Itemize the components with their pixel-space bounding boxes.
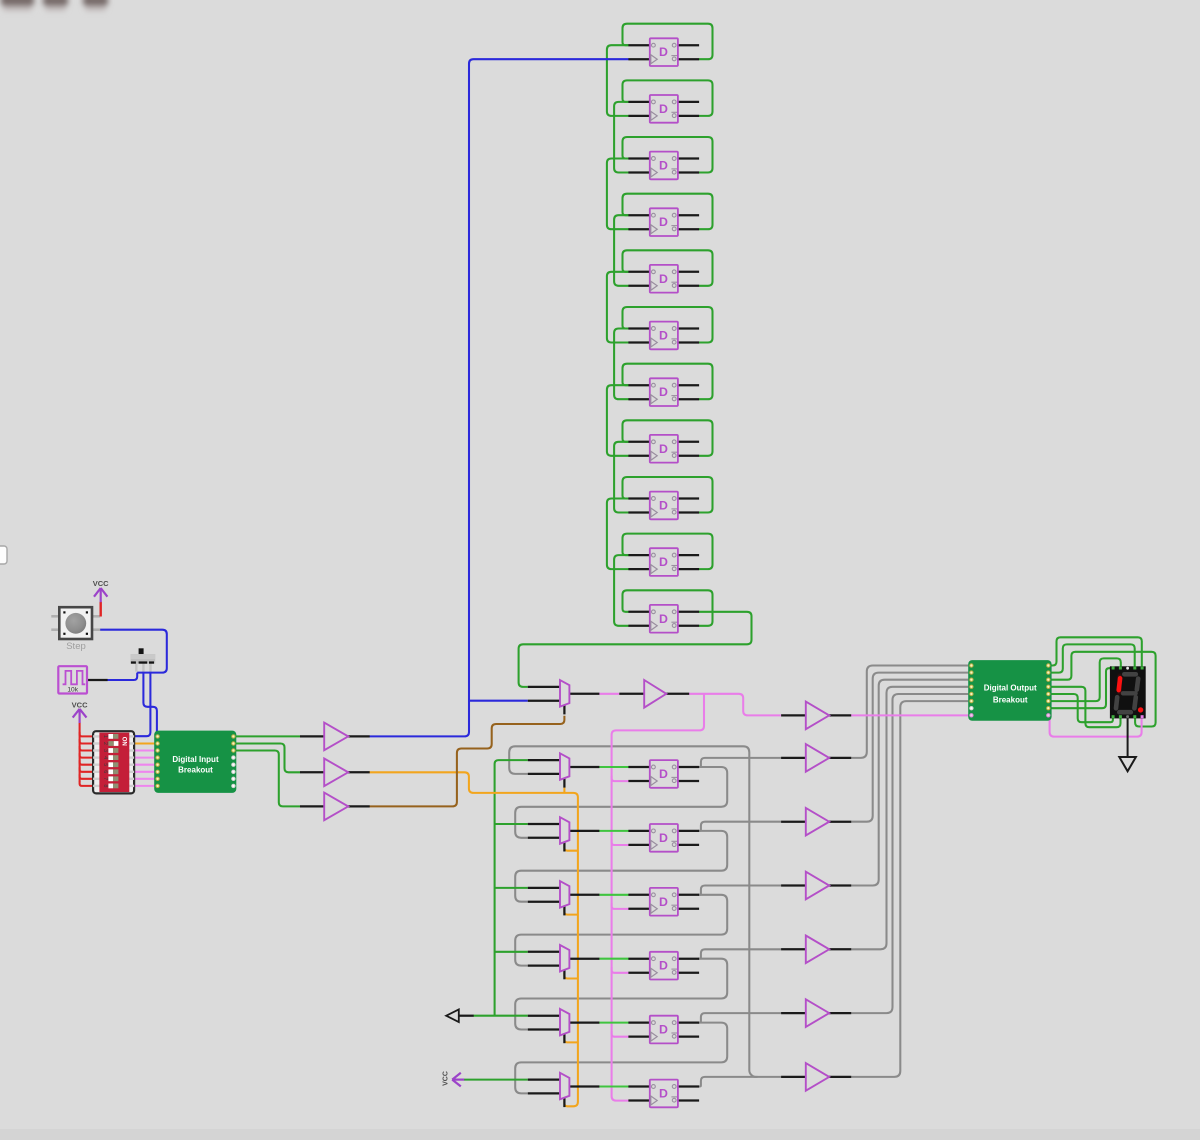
D flip-flop U8 (shift column) [628,435,699,463]
wire buffer 2 output to Digital Output Breakout pin 1 [851,666,968,758]
wire DFF8 D node to DFF9 clock [614,442,628,513]
DIP switch SW1 [93,731,134,793]
wire shift-enable tap mux row3 select [564,909,578,915]
D flip-flop register row3 [628,888,699,916]
mux0 output stub [569,693,599,695]
mux4 input B stub [528,964,560,966]
wire mux row5 output to DFF row5 D input [599,1022,628,1024]
wire VCC rail branch to DIP row4 [80,753,94,758]
Digital Input Breakout [154,731,236,793]
buffer C output stub [348,805,370,807]
svg-text:D: D [659,1087,668,1101]
wire green bus tap to mux row4 input A [495,951,528,953]
output buffer 6 [806,999,829,1027]
svg-text:D: D [659,215,668,229]
wire DIP row2 to Digital Input Breakout pin2 [134,742,158,744]
buffer0 after mux0 [644,680,666,708]
wire buffer 4 output to Digital Output Breakout pin 3 [851,680,968,886]
svg-text:D: D [659,1023,668,1037]
svg-text:D: D [659,385,668,399]
wire Digital Input Breakout pin2 to buffer B [233,744,300,773]
input node arrow [446,1009,459,1022]
wire buffer C output to mux0 select [370,716,565,807]
wire clock line tap to mux0 input B [469,700,528,702]
svg-text:D: D [659,499,668,513]
wire buffer 6 output to Digital Output Breakout pin 5 [851,694,968,1013]
wire buffer0 output to buffer1 input [689,694,781,716]
wire step button to slide switch [100,630,167,673]
wire slide switch pole to clock output [107,673,137,680]
mux5 input B stub [528,1028,560,1030]
wire DFF Q row5 feedback loop to mux row6 [515,1023,727,1094]
wire DFF11 Q output to mux0 input A [519,612,752,687]
wire buffer1 output to DOB pin8 [851,714,971,716]
input arrow stub [459,1015,474,1017]
2:1 mux M2 [560,817,569,844]
svg-text:D: D [659,45,668,59]
svg-text:3: 3 [102,749,108,752]
wire Digital Input Breakout pin3 to buffer C [233,751,300,807]
output buffer 3 [806,808,829,836]
buffer1 output stub [829,714,851,716]
2:1 mux M6 [560,1073,569,1100]
mux1 input A stub [528,759,560,761]
2:1 mux M5 [560,1009,569,1036]
svg-text:VCC: VCC [72,700,88,709]
wire shift-enable tap mux row2 select [564,845,578,851]
wire DIP row5 to Digital Input Breakout pin5 [134,764,158,766]
mux5 output stub [569,1021,599,1023]
wire DFF Q row1 feedback loop to mux row2 [515,767,727,838]
wire DFF2 D node to DFF3 clock [614,102,628,173]
buffer3 input stub [781,821,806,823]
mux0 input A stub [528,686,560,688]
seven segment display [1110,666,1146,771]
wire shift-enable tap mux row4 select [564,973,578,979]
svg-text:D: D [659,895,668,909]
svg-text:Breakout: Breakout [178,765,213,774]
mux3 select stub [563,906,565,915]
buffer5 input stub [781,948,806,950]
wire buffer 5 output to Digital Output Breakout pin 4 [851,687,968,950]
2:1 mux M3 [560,881,569,908]
buffer6 input stub [781,1012,806,1014]
buffer B output stub [348,771,370,773]
wire DFF6 D node to DFF7 clock [614,329,628,400]
buffer A input stub [300,735,325,737]
output buffer 5 [806,936,829,964]
buffer A (clock path) [324,723,348,751]
mux2 input A stub [528,823,560,825]
buffer5 output stub [829,948,851,950]
wire DFF4 Q-bar feedback loop to D input [623,194,713,230]
wire DFF Q row3 feedback loop to mux row4 [515,895,727,966]
wire parallel-load green bus vertical [495,760,528,1016]
buffer6 output stub [829,1012,851,1014]
wire VCC rail branch to DIP row3 [80,746,94,751]
wire mux row4 output to DFF row4 D input [599,958,628,960]
D flip-flop U9 (shift column) [628,492,699,520]
mux1 output stub [569,766,599,768]
buffer2 input stub [781,757,806,759]
D flip-flop register row2 [628,824,699,852]
wire DFF Q row5 to buffer 6 input [698,1013,781,1023]
wire DFF Q row4 to buffer 5 input [698,949,781,958]
svg-text:D: D [659,831,668,845]
svg-text:Digital Output: Digital Output [984,684,1037,693]
D flip-flop register row6 [628,1080,699,1108]
output buffer 2 [806,744,829,772]
wire slide switch throw to DIP row1 [134,671,150,736]
2:1 mux M0 [560,680,569,707]
buffer B input stub [300,771,325,773]
wire DFF6 Q-bar feedback loop to D input [623,307,713,343]
left edge panel tab [0,546,7,564]
D flip-flop U2 (shift column) [628,95,699,123]
wire DFF Q row2 to buffer 3 input [698,822,781,831]
wire DFF5 Q-bar feedback loop to D input [623,250,713,285]
wire DFF7 D node to DFF8 clock [607,385,629,456]
svg-text:7: 7 [102,777,108,780]
wire green bus tap to mux row2 input A [495,823,528,825]
svg-text:D: D [659,329,668,343]
wire mux0 output to buffer0 [599,693,619,695]
wire DFF2 Q-bar feedback loop to D input [623,80,713,116]
wire DIP row8 to Digital Input Breakout pin8 [134,785,158,787]
buffer0 output stub [666,693,689,695]
svg-text:D: D [659,612,668,626]
D flip-flop register row4 [628,952,699,980]
mux4 output stub [569,958,599,960]
D flip-flop U11 (shift column) [628,605,699,633]
svg-text:4: 4 [102,756,108,759]
mux6 input B stub [528,1092,560,1094]
wire gated clock bus for register rows [612,694,704,1101]
wire green bus tap to mux row3 input A [495,887,528,889]
D flip-flop U5 (shift column) [628,265,699,293]
output buffer 1 [806,702,829,730]
D flip-flop U3 (shift column) [628,152,699,180]
svg-text:10k: 10k [67,687,78,694]
output buffer 4 [806,872,829,900]
wire shift-enable tap mux row5 select [564,1037,578,1043]
svg-text:D: D [659,959,668,973]
mux1 select stub [563,778,565,787]
wire Digital Input Breakout pin1 to buffer A [233,735,300,737]
D flip-flop U4 (shift column) [628,208,699,236]
mux6 input A stub [528,1078,560,1080]
svg-text:Breakout: Breakout [993,695,1028,704]
mux2 input B stub [528,837,560,839]
buffer0 input stub [619,693,644,695]
svg-text:6: 6 [102,770,108,773]
buffer A output stub [348,735,370,737]
wire DFF5 D node to DFF6 clock [607,272,629,343]
wire VCC rail branch to DIP row6 [80,767,94,772]
buffer C (mux0 select) [324,793,348,821]
wire mux row6 output to DFF row6 D input [599,1085,628,1087]
wire DOB pin3 to display bottom pin4 [1048,652,1155,727]
wire buffer B output shift-enable line to mux selects [370,772,578,1106]
output buffer 7 [806,1063,829,1091]
wire clock bus tap to DFF row5 clock [612,1031,629,1037]
wire DFF Q row1 to buffer 2 input [698,758,781,767]
buffer7 input stub [781,1076,806,1078]
svg-text:2: 2 [102,742,108,745]
mux1 input B stub [528,773,560,775]
mux5 input A stub [528,1015,560,1017]
svg-text:ON: ON [121,737,127,746]
wire input arrow to mux row5 input A [474,1015,528,1017]
mux2 select stub [563,842,565,851]
blurred toolbar smudge 3 [83,0,108,11]
svg-text:D: D [659,442,668,456]
wire VCC rail branch to DIP row7 [80,774,94,779]
svg-text:D: D [659,272,668,286]
wire DFF7 Q-bar feedback loop to D input [623,364,713,400]
svg-text:1: 1 [102,735,108,738]
clock output stub [87,679,108,681]
wire DIP row3 to Digital Input Breakout pin3 [134,749,158,751]
mux3 input A stub [528,887,560,889]
wire clock bus tap to DFF row3 clock [612,903,629,909]
wire DFF Q row6 to buffer 7 input [698,1077,781,1087]
svg-text:D: D [659,767,668,781]
svg-text:5: 5 [102,763,108,766]
wire slide switch common to Digital Input Breakout pin1 [143,671,157,736]
buffer1 input stub [781,714,806,716]
wire buffer 7 output to Digital Output Breakout pin 6 [851,701,968,1077]
wire DIP row6 to Digital Input Breakout pin6 [134,771,158,773]
wire DOB pin4 to display bottom pin2 [1048,687,1120,727]
wire DFF Q row2 feedback loop to mux row3 [515,831,727,902]
D flip-flop U6 (shift column) [628,322,699,350]
buffer2 output stub [829,757,851,759]
VCC symbol (step button) [94,588,107,617]
2:1 mux M1 [560,753,569,780]
D flip-flop U10 (shift column) [628,548,699,576]
VCC symbol (mux row6) [442,1071,464,1086]
wire DOB pin8 to display decimal-point pin [1048,715,1141,736]
wire DFF Q row4 feedback loop to mux row5 [515,959,727,1030]
wire DOB pin7 to display top pin1 [1048,668,1112,708]
blurred toolbar smudge 2 [43,0,68,11]
slide switch [131,648,156,671]
blurred toolbar smudge 1 [1,0,34,11]
mux5 select stub [563,1034,565,1043]
wire DIP row4 to Digital Input Breakout pin4 [134,757,158,759]
wire DFF1 D node to DFF2 clock [607,45,629,116]
2:1 mux M4 [560,945,569,972]
mux0 input B stub [528,700,560,702]
buffer3 output stub [829,821,851,823]
mux0 select stub [563,705,565,714]
wire clock bus tap to DFF row4 clock [612,967,629,973]
wire shift-enable tap mux row1 select [563,788,565,793]
D flip-flop register row5 [628,1016,699,1044]
wire VCC rail branch to DIP row5 [80,760,94,765]
wire VCC rail branch to DIP row8 [80,781,94,786]
wire mux1 load input from feedback bus [509,746,757,1077]
wire VCC to mux row6 input A [464,1079,528,1081]
wire clock bus tap to DFF row2 clock [612,839,629,845]
wire DFF10 D node to DFF11 clock [614,555,628,626]
ground symbol [1119,718,1136,771]
wire DIP row7 to Digital Input Breakout pin7 [134,778,158,780]
wire DFF9 Q-bar feedback loop to D input [623,477,713,513]
mux3 input B stub [528,901,560,903]
wire clock bus tap to DFF row1 clock [612,776,629,782]
VCC symbol (DIP rail) [73,709,87,723]
buffer7 output stub [829,1076,851,1078]
push button Step [51,607,100,639]
wire DFF11 Q-bar feedback loop to D input [623,590,713,626]
wire DFF8 Q-bar feedback loop to D input [623,420,713,456]
svg-text:D: D [659,159,668,173]
bottom window band [0,1129,1200,1140]
wire buffer 3 output to Digital Output Breakout pin 2 [851,673,968,822]
wire DFF Q row3 to buffer 4 input [698,886,781,895]
D flip-flop register row1 [628,760,699,788]
clock generator 10k [58,666,87,693]
Digital Output Breakout [968,660,1051,721]
wire DOB pin5 to display bottom pin1 [1048,694,1113,722]
buffer B (shift enable) [324,759,348,787]
wire buffer A output clock line to DFF1 clock [370,59,629,736]
D flip-flop U1 (shift column) [628,38,699,66]
wire DFF3 D node to DFF4 clock [607,159,629,230]
buffer4 input stub [781,884,806,886]
D flip-flop U7 (shift column) [628,378,699,406]
svg-text:8: 8 [102,784,108,787]
wire DOB pin2 to display top pin4 [1048,644,1134,672]
wire VCC rail branch to DIP row2 [80,739,94,744]
mux6 select stub [563,1098,565,1107]
wire DFF4 D node to DFF5 clock [614,215,628,286]
mux4 select stub [563,970,565,979]
wire DOB pin1 to display top pin5 [1048,637,1142,666]
svg-text:VCC: VCC [93,579,109,588]
wire DFF3 Q-bar feedback loop to D input [623,137,713,173]
wire mux row2 output to DFF row2 D input [599,830,628,832]
svg-text:VCC: VCC [442,1071,449,1086]
svg-text:D: D [659,102,668,116]
buffer C input stub [300,805,325,807]
svg-text:D: D [659,555,668,569]
mux3 output stub [569,894,599,896]
buffer4 output stub [829,884,851,886]
wire VCC supply rail to DIP switch [79,722,81,782]
wire DFF9 D node to DFF10 clock [607,499,629,570]
svg-text:Digital Input: Digital Input [172,755,219,764]
mux2 output stub [569,830,599,832]
wire mux row1 output to DFF row1 D input [599,766,628,768]
wire VCC rail branch to DIP row1 [80,732,94,737]
wire DOB pin6 to display top pin2 [1048,658,1121,701]
svg-text:Step: Step [66,641,86,652]
wire mux row3 output to DFF row3 D input [599,894,628,896]
mux6 output stub [569,1085,599,1087]
wire DFF10 Q-bar feedback loop to D input [623,534,713,570]
mux4 input A stub [528,951,560,953]
wire DFF1 Q-bar feedback loop to D input [623,24,713,60]
